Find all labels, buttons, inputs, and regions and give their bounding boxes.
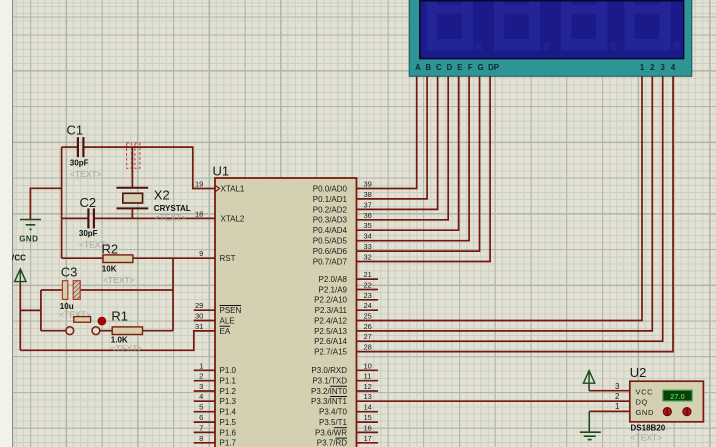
crystal X2 xyxy=(117,147,149,218)
wire P0.5 (pin 34) to display segment F xyxy=(357,76,470,240)
wire U2 VCC xyxy=(589,390,630,392)
ground symbol (U2) xyxy=(580,411,601,439)
svg-text:C2: C2 xyxy=(80,195,97,210)
U1 pin 8 P1.7 xyxy=(194,434,237,447)
wire EA to VCC (bottom) xyxy=(20,331,215,350)
svg-text:7: 7 xyxy=(199,423,203,432)
svg-text:10K: 10K xyxy=(102,265,117,274)
svg-text:P3.5/T1: P3.5/T1 xyxy=(319,418,348,427)
U1 pin 10 P3.0/RXD xyxy=(311,361,378,375)
svg-text:36: 36 xyxy=(364,211,372,220)
svg-text:D: D xyxy=(447,63,453,72)
svg-text:27.0: 27.0 xyxy=(670,392,685,401)
wire P0.0 (pin 39) to display segment A xyxy=(357,76,417,188)
svg-text:6: 6 xyxy=(199,413,203,422)
wire RST net vertical xyxy=(172,258,174,331)
svg-text:P3.1/TXD: P3.1/TXD xyxy=(312,377,347,386)
sheet left margin cover xyxy=(0,0,12,447)
U1 pin 16 P3.6/WR xyxy=(315,423,378,437)
U1 pin 33 P0.6/AD6 xyxy=(313,242,372,256)
wire P0.3 (pin 36) to display segment D xyxy=(357,76,449,220)
svg-text:P1.6: P1.6 xyxy=(220,428,237,437)
svg-text:DQ: DQ xyxy=(636,398,648,407)
U1 pin 7 P1.6 xyxy=(194,423,237,437)
U1 pin 36 P0.3/AD3 xyxy=(313,211,372,225)
wire P2.6 (pin 27) to display digit 3 xyxy=(357,76,663,341)
U1 pin 23 P2.2/A10 xyxy=(314,291,378,305)
svg-text:P3.4/T0: P3.4/T0 xyxy=(319,408,348,417)
wire P2.7 (pin 28) to display digit 4 xyxy=(357,76,674,351)
svg-text:VCC: VCC xyxy=(636,387,654,396)
U1 pin 21 P2.0/A8 xyxy=(319,270,378,284)
svg-text:12: 12 xyxy=(364,382,372,391)
svg-text:27: 27 xyxy=(364,332,372,341)
svg-text:C: C xyxy=(436,63,442,72)
wire button to R1 xyxy=(100,330,112,332)
svg-text:U1: U1 xyxy=(213,164,230,179)
svg-text:24: 24 xyxy=(364,301,372,310)
U2 pin 1 GND xyxy=(615,402,654,417)
U1 pin 39 P0.0/AD0 xyxy=(313,180,372,194)
7-segment display module xyxy=(409,0,692,76)
svg-text:P0.7/AD7: P0.7/AD7 xyxy=(313,257,348,266)
svg-text:DS18B20: DS18B20 xyxy=(631,423,666,432)
svg-text:R2: R2 xyxy=(102,241,119,256)
U1 XTAL1 clock chevron xyxy=(215,185,220,192)
wire C1 right to XTAL1 xyxy=(84,147,215,188)
push button contacts xyxy=(66,317,100,335)
wire GND branch xyxy=(30,188,61,219)
svg-text:28: 28 xyxy=(364,343,372,352)
wire P0.6 (pin 33) to display segment G xyxy=(357,76,480,251)
svg-text:PSEN: PSEN xyxy=(220,306,242,315)
U1 pin 18 XTAL2 xyxy=(195,209,245,223)
svg-text:CRYSTAL: CRYSTAL xyxy=(154,204,191,213)
svg-text:P2.3/A11: P2.3/A11 xyxy=(315,306,348,315)
U1 pin 9 RST xyxy=(199,249,235,263)
svg-text:37: 37 xyxy=(364,200,372,209)
svg-text:22: 22 xyxy=(364,281,372,290)
wire P0.7 (pin 32) to display segment DP xyxy=(357,76,491,261)
svg-text:<TEXT>: <TEXT> xyxy=(631,433,663,443)
display digit 1 (dim 8) xyxy=(427,0,482,51)
U1 pin 25 P2.4/A12 xyxy=(314,312,372,326)
wire DQ from U1 pin13 to U2 xyxy=(357,400,630,402)
svg-text:F: F xyxy=(468,63,473,72)
wire P0.4 (pin 35) to display segment E xyxy=(357,76,459,230)
U2 pin 2 DQ xyxy=(615,392,648,407)
svg-text:3: 3 xyxy=(615,382,620,391)
svg-text:P1.4: P1.4 xyxy=(220,408,237,417)
svg-text:2: 2 xyxy=(650,63,655,72)
U1 pin 17 P3.7/RD xyxy=(317,434,378,447)
capacitor C3 (electrolytic) xyxy=(62,281,80,300)
svg-text:U2: U2 xyxy=(630,365,647,380)
svg-text:XTAL2: XTAL2 xyxy=(221,214,245,223)
svg-text:P0.3/AD3: P0.3/AD3 xyxy=(313,216,348,225)
U1 pin 38 P0.1/AD1 xyxy=(313,190,372,204)
svg-text:30pF: 30pF xyxy=(70,158,89,167)
power symbol VCC arrow (U2) xyxy=(583,371,594,391)
svg-text:P3.3/INT1: P3.3/INT1 xyxy=(311,397,348,406)
svg-text:ALE: ALE xyxy=(220,316,235,325)
power symbol VCC arrow xyxy=(15,269,26,350)
svg-text:18: 18 xyxy=(195,209,203,218)
wire C2 right to XTAL2 xyxy=(95,217,215,219)
svg-text:26: 26 xyxy=(364,322,372,331)
svg-text:13: 13 xyxy=(364,392,372,401)
U1 pin 30 ALE xyxy=(194,312,235,326)
U1 pin 24 P2.3/A11 xyxy=(315,301,378,315)
svg-text:17: 17 xyxy=(364,434,372,443)
svg-text:3: 3 xyxy=(661,63,666,72)
svg-text:P3.7/RD: P3.7/RD xyxy=(317,439,347,447)
svg-text:P3.6/WR: P3.6/WR xyxy=(315,428,347,437)
svg-text:C3: C3 xyxy=(61,265,78,280)
wire P2.4 (pin 25) to display digit 1 xyxy=(357,76,643,320)
U1 pin 32 P0.7/AD7 xyxy=(313,253,372,267)
svg-text:21: 21 xyxy=(364,270,372,279)
svg-text:P1.0: P1.0 xyxy=(220,366,237,375)
svg-text:C1: C1 xyxy=(67,123,84,138)
svg-text:34: 34 xyxy=(364,232,372,241)
U1 pin 28 P2.7/A15 xyxy=(314,343,372,357)
U1 pin 37 P0.2/AD2 xyxy=(313,200,372,214)
U1 pin 34 P0.5/AD5 xyxy=(313,232,372,246)
svg-text:<TEXT>: <TEXT> xyxy=(103,275,135,285)
svg-text:25: 25 xyxy=(364,312,372,321)
U1 pin 35 P0.4/AD4 xyxy=(313,221,372,235)
U1 pin 31 EA xyxy=(195,322,231,336)
wire C1 left to rail xyxy=(62,146,78,148)
svg-text:10: 10 xyxy=(364,361,372,370)
svg-text:R1: R1 xyxy=(111,308,128,323)
wire R2 right to RST xyxy=(133,257,215,259)
svg-text:GND: GND xyxy=(19,235,38,244)
svg-text:P2.4/A12: P2.4/A12 xyxy=(314,316,347,325)
wire R2 left to rail xyxy=(62,257,103,259)
U1 pin 3 P1.2 xyxy=(194,382,237,396)
U2 pin 3 VCC xyxy=(615,382,653,397)
sensor U2 DS18B20 body xyxy=(630,381,704,422)
svg-text:A: A xyxy=(415,63,421,72)
display digit 2 (dim 8) xyxy=(494,0,549,51)
U1 pin 12 P3.2/INT0 xyxy=(311,382,378,396)
wire C3 left xyxy=(41,289,63,291)
svg-text:RST: RST xyxy=(220,254,236,263)
svg-text:P2.7/A15: P2.7/A15 xyxy=(314,348,347,357)
svg-text:P0.4/AD4: P0.4/AD4 xyxy=(313,226,348,235)
display pin labels 1 2 3 4 xyxy=(640,63,676,72)
U1 pin 2 P1.1 xyxy=(194,372,237,386)
svg-text:30: 30 xyxy=(195,312,203,321)
U1 pin 19 XTAL1 xyxy=(195,180,245,194)
svg-text:P2.0/A8: P2.0/A8 xyxy=(319,275,348,284)
svg-text:G: G xyxy=(478,63,484,72)
wire R1 right to RST net xyxy=(143,330,174,332)
wire C3 right xyxy=(80,289,173,291)
wire P2.5 (pin 26) to display digit 2 xyxy=(357,76,653,331)
display inner top edge xyxy=(420,0,684,2)
svg-text:19: 19 xyxy=(195,180,203,189)
svg-text:23: 23 xyxy=(364,291,372,300)
svg-text:P3.0/RXD: P3.0/RXD xyxy=(311,366,347,375)
svg-text:39: 39 xyxy=(364,180,372,189)
svg-text:P1.5: P1.5 xyxy=(220,418,237,427)
U1 pin 22 P2.1/A9 xyxy=(319,281,378,295)
svg-text:GND: GND xyxy=(636,408,654,417)
svg-text:P2.6/A14: P2.6/A14 xyxy=(314,337,347,346)
svg-text:EA: EA xyxy=(220,327,231,336)
wire button left xyxy=(41,330,66,332)
ghost dashed capacitor outline xyxy=(127,143,140,168)
svg-text:3: 3 xyxy=(199,382,203,391)
svg-text:2: 2 xyxy=(615,392,620,401)
U1 pin 13 P3.3/INT1 xyxy=(311,392,372,406)
svg-text:5: 5 xyxy=(199,403,203,412)
display digit 3 (dim 8) xyxy=(561,0,616,51)
svg-text:XTAL1: XTAL1 xyxy=(221,184,245,193)
ground symbol (left) xyxy=(20,220,41,230)
svg-text:16: 16 xyxy=(364,423,372,432)
svg-text:33: 33 xyxy=(364,242,372,251)
svg-text:DP: DP xyxy=(488,63,499,72)
svg-text:32: 32 xyxy=(364,253,372,262)
svg-text:9: 9 xyxy=(199,249,203,258)
resistor R1 xyxy=(112,327,142,335)
wire VCC branch xyxy=(20,309,41,311)
svg-text:4: 4 xyxy=(199,392,203,401)
wire P0.2 (pin 37) to display segment C xyxy=(357,76,438,209)
svg-text:14: 14 xyxy=(364,403,372,412)
svg-text:B: B xyxy=(425,63,431,72)
svg-text:P1.1: P1.1 xyxy=(220,377,237,386)
U1 pin 27 P2.6/A14 xyxy=(314,332,372,346)
svg-text:2: 2 xyxy=(199,372,203,381)
svg-text:P0.6/AD6: P0.6/AD6 xyxy=(313,247,348,256)
capacitor C1 xyxy=(78,137,84,157)
wire P0.1 (pin 38) to display segment B xyxy=(357,76,428,199)
svg-text:P2.2/A10: P2.2/A10 xyxy=(314,296,347,305)
button actuator red dot xyxy=(98,317,106,325)
wire C2 left to rail xyxy=(62,217,88,219)
svg-text:<TEXT>: <TEXT> xyxy=(155,213,187,223)
U1 pin 4 P1.3 xyxy=(194,392,237,406)
svg-text:P1.7: P1.7 xyxy=(220,439,237,447)
svg-text:1: 1 xyxy=(640,63,645,72)
svg-text:P2.1/A9: P2.1/A9 xyxy=(319,285,348,294)
svg-text:P3.2/INT0: P3.2/INT0 xyxy=(311,387,348,396)
svg-text:15: 15 xyxy=(364,413,372,422)
display pin labels ABCDEFG DP xyxy=(415,63,499,72)
svg-text:35: 35 xyxy=(364,221,372,230)
svg-text:30pF: 30pF xyxy=(79,229,98,238)
U1 pin 14 P3.4/T0 xyxy=(319,403,378,417)
svg-text:38: 38 xyxy=(364,190,372,199)
U1 pin 29 PSEN xyxy=(194,301,242,315)
capacitor C2 xyxy=(88,208,94,228)
display digit 4 (dim 8) xyxy=(624,0,679,51)
svg-text:11: 11 xyxy=(364,372,372,381)
wire U2 GND xyxy=(589,410,630,412)
U2 adjust knob + xyxy=(663,408,671,416)
wire GND rail vertical xyxy=(61,147,63,258)
svg-text:31: 31 xyxy=(195,322,203,331)
svg-text:P1.3: P1.3 xyxy=(220,397,237,406)
svg-text:<TEXT>: <TEXT> xyxy=(70,169,102,179)
U1 pin 26 P2.5/A13 xyxy=(314,322,372,336)
svg-text:<TEXT>: <TEXT> xyxy=(111,344,143,354)
svg-text:P0.0/AD0: P0.0/AD0 xyxy=(313,184,348,193)
svg-text:P1.2: P1.2 xyxy=(220,387,237,396)
U1 pin 11 P3.1/TXD xyxy=(312,372,378,386)
svg-text:P0.2/AD2: P0.2/AD2 xyxy=(313,205,348,214)
svg-text:1: 1 xyxy=(615,402,620,411)
wire C3/button vertical xyxy=(40,290,42,331)
svg-text:4: 4 xyxy=(671,63,676,72)
U1 pin 1 P1.0 xyxy=(194,361,237,375)
U1 pin 15 P3.5/T1 xyxy=(319,413,378,427)
U1 pin 5 P1.4 xyxy=(194,403,237,417)
svg-text:1: 1 xyxy=(199,361,203,370)
U1 pin 6 P1.5 xyxy=(194,413,237,427)
svg-text:P2.5/A13: P2.5/A13 xyxy=(314,327,347,336)
svg-text:X2: X2 xyxy=(154,188,170,203)
op chip U1 body (8051 MCU) xyxy=(215,178,357,447)
U2 temperature readout 27.0 xyxy=(663,390,692,401)
U2 adjust knob - xyxy=(683,408,691,416)
svg-text:E: E xyxy=(457,63,462,72)
svg-text:29: 29 xyxy=(195,301,203,310)
svg-text:8: 8 xyxy=(199,434,203,443)
svg-text:P0.5/AD5: P0.5/AD5 xyxy=(313,237,348,246)
svg-text:P0.1/AD1: P0.1/AD1 xyxy=(313,195,348,204)
resistor R2 xyxy=(103,255,133,263)
